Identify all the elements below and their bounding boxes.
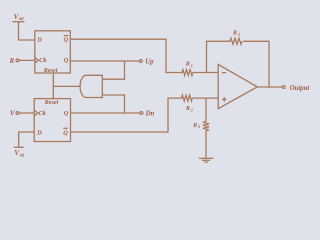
input terminal V (10, 110, 19, 117)
resistor R1 (bottom) (182, 95, 193, 101)
wire AND output to resets (53, 85, 80, 87)
svg-text:dd: dd (19, 16, 24, 21)
clock wedge (U1) (35, 58, 39, 64)
svg-text:R: R (185, 62, 190, 68)
wire R to Ck (U1) (19, 59, 35, 61)
wire V to Ck (U2) (19, 112, 34, 114)
label R2 (to ground) (192, 123, 200, 129)
wire op-amp output (257, 86, 282, 88)
clock wedge (U2) (34, 110, 38, 116)
AND gate U3 (points left) (80, 75, 102, 97)
power supply Vdd (bottom) (14, 147, 25, 157)
wire reset vertical U1-U2 (52, 73, 54, 99)
svg-text:1: 1 (191, 108, 193, 113)
resistor R2 (feedback) (230, 38, 242, 44)
svg-text:dd: dd (20, 153, 25, 158)
D flip-flop U1 (35, 31, 71, 73)
svg-text:1: 1 (191, 63, 193, 68)
svg-text:Q: Q (64, 57, 69, 64)
input terminal R (9, 58, 19, 65)
svg-text:Q: Q (63, 130, 68, 137)
op-amp plus sign (222, 97, 227, 102)
svg-text:V: V (10, 110, 15, 117)
wire Qbar (U1) to R1 top (70, 39, 182, 72)
wire Q (U2) to Dn terminal (71, 112, 140, 114)
power supply Vdd (top) (13, 14, 25, 22)
wire R2 feedback to output node (243, 41, 269, 87)
svg-text:Output: Output (290, 85, 311, 92)
label R1 (bottom) (185, 106, 193, 112)
svg-text:Dn: Dn (145, 111, 155, 118)
svg-text:R: R (232, 31, 237, 37)
label R2 (feedback) (232, 31, 240, 37)
wire R1 to inverting input (193, 72, 218, 74)
wire junction to feedback, R2 feedback top (207, 41, 231, 72)
ground (199, 158, 213, 162)
wire Vdd to D input of U1 (19, 22, 35, 40)
label R1 (top) (185, 62, 193, 68)
output terminal Up (140, 59, 155, 66)
resistor R1 (top) (182, 70, 193, 76)
svg-text:Ck: Ck (39, 57, 47, 64)
output terminal Dn (140, 111, 155, 118)
resistor R2 (to ground) (203, 122, 209, 131)
op-amp minus sign (222, 72, 226, 74)
svg-text:R: R (9, 58, 15, 65)
wire D (U2) to Vdd (bottom) (19, 132, 35, 147)
wire R2 to ground (205, 131, 207, 159)
wire Qbar (U2) to R1 bottom (71, 98, 183, 132)
output terminal Output (282, 85, 310, 92)
svg-text:D: D (36, 130, 42, 137)
op-amp U4 (218, 64, 257, 108)
wire Dn net to AND input (bottom) (102, 95, 124, 113)
svg-text:Reset: Reset (43, 67, 58, 74)
svg-text:2: 2 (237, 32, 240, 37)
svg-text:Reset: Reset (44, 99, 59, 106)
svg-text:R: R (185, 106, 190, 112)
D flip-flop U2 (34, 99, 70, 142)
pin label Qbar (U1) (64, 36, 69, 44)
svg-text:R: R (192, 123, 197, 129)
wire Q (U1) to Up terminal (70, 60, 139, 62)
svg-text:2: 2 (197, 124, 200, 129)
pin label Qbar (U2) (63, 128, 68, 136)
svg-text:Q: Q (64, 110, 69, 117)
wire R1 to non-inverting input (192, 97, 218, 99)
svg-text:Up: Up (145, 59, 154, 66)
wire Up net to AND input (top) (102, 61, 124, 79)
svg-text:D: D (36, 37, 42, 44)
svg-text:Ck: Ck (39, 110, 47, 117)
svg-text:Q: Q (64, 37, 69, 44)
wire junction to R2 ground leg (205, 98, 207, 121)
